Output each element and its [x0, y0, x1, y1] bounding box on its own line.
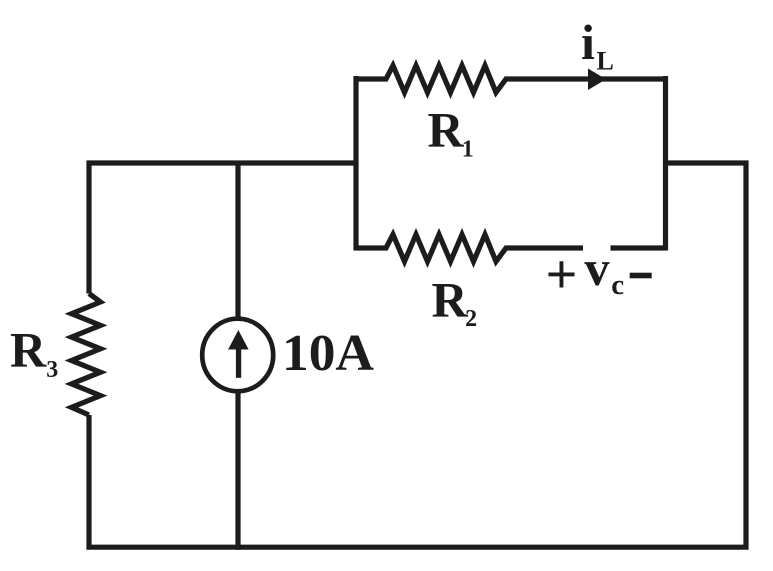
svg-text:2: 2: [465, 306, 477, 332]
svg-text:+: +: [546, 244, 578, 306]
svg-text:L: L: [597, 46, 614, 75]
svg-text:3: 3: [46, 357, 58, 383]
svg-text:c: c: [611, 269, 624, 301]
svg-text:1: 1: [462, 136, 474, 162]
svg-text:R: R: [10, 322, 47, 378]
svg-text:R: R: [428, 102, 465, 158]
svg-text:v: v: [585, 240, 610, 296]
svg-text:i: i: [581, 14, 595, 70]
svg-text:10A: 10A: [282, 325, 374, 382]
svg-text:R: R: [432, 272, 469, 328]
